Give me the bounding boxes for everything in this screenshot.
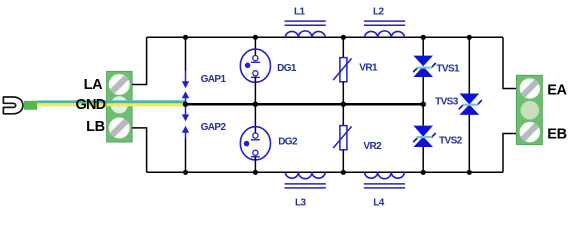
ground wire green stripe	[37, 100, 186, 103]
svg-text:GND: GND	[75, 97, 105, 113]
junction top rail TVS3 column	[467, 35, 472, 40]
junction bottom rail DG column	[253, 170, 258, 175]
svg-text:DG2: DG2	[278, 137, 298, 148]
wire LA to top rail	[132, 37, 147, 84]
junction bottom rail TVS1 column	[421, 170, 426, 175]
inductor L3	[285, 172, 326, 188]
svg-text:EA: EA	[547, 83, 567, 99]
svg-text:L2: L2	[373, 6, 385, 17]
gas discharge tube DG2	[240, 104, 270, 172]
terminal J2 EB screw	[520, 122, 540, 142]
svg-text:VR2: VR2	[363, 141, 382, 152]
svg-text:TVS2: TVS2	[439, 135, 463, 146]
GND bus wire	[186, 103, 424, 106]
junction GND GAP column	[183, 102, 188, 107]
svg-text:L3: L3	[295, 198, 307, 209]
junction bottom rail VR column	[341, 170, 346, 175]
junction GND TVS1 column	[421, 102, 426, 107]
svg-text:TVS1: TVS1	[436, 64, 460, 75]
inductor L1	[285, 21, 326, 37]
TVS diode TVS1	[413, 37, 436, 104]
junction bottom rail GAP column	[183, 170, 188, 175]
terminal J1 LA screw	[109, 74, 130, 95]
junction top rail GAP column	[183, 35, 188, 40]
TVS diode TVS2	[413, 104, 436, 172]
gas discharge tube DG1	[240, 37, 270, 104]
wire bottom rail to EB	[503, 134, 517, 173]
TVS diode TVS3	[459, 37, 482, 172]
ground lug crimp	[24, 101, 37, 110]
junction bottom rail TVS3 column	[467, 170, 472, 175]
junction top rail DG column	[253, 35, 258, 40]
junction GND DG column	[253, 102, 258, 107]
varistor VR1	[333, 37, 352, 104]
terminal block J2 body	[517, 75, 543, 144]
svg-text:GAP1: GAP1	[201, 74, 227, 85]
junction top rail TVS1 column	[421, 35, 426, 40]
svg-text:GAP2: GAP2	[201, 122, 227, 133]
inductor L2	[364, 21, 405, 37]
wire LB to bottom rail	[132, 128, 147, 172]
inductor L4	[364, 172, 405, 188]
svg-text:DG1: DG1	[277, 63, 297, 74]
ground wire yellow stripe	[37, 103, 186, 106]
terminal J2 middle hole	[521, 101, 540, 120]
svg-text:TVS3: TVS3	[435, 96, 459, 107]
wire top rail to EA	[503, 37, 517, 88]
spark gap GAP2	[182, 104, 189, 172]
svg-text:VR1: VR1	[359, 63, 378, 74]
ground wire over terminal	[107, 100, 186, 106]
spark gap GAP1	[182, 37, 189, 104]
svg-text:L1: L1	[294, 6, 306, 17]
ground lug	[3, 97, 23, 114]
bottom rail wire	[147, 171, 503, 173]
svg-text:L4: L4	[373, 198, 385, 209]
svg-text:LA: LA	[84, 77, 104, 93]
terminal J1 LB screw	[109, 117, 130, 138]
varistor VR2	[333, 104, 352, 172]
junction top rail VR column	[341, 35, 346, 40]
svg-text:LB: LB	[86, 119, 105, 135]
terminal J1 GND hole	[111, 96, 128, 113]
terminal J2 EA screw	[520, 78, 540, 98]
svg-text:EB: EB	[547, 126, 567, 142]
junction GND VR column	[341, 102, 346, 107]
top rail wire	[147, 36, 503, 38]
terminal block J1 body	[107, 71, 133, 142]
